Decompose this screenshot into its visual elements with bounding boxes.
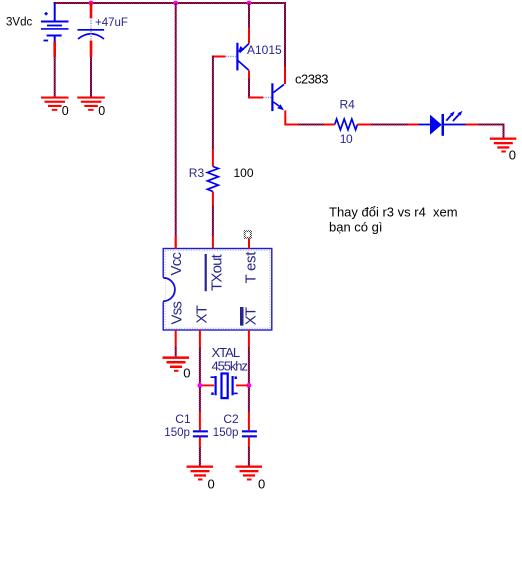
- svg-text:C1: C1: [175, 412, 191, 426]
- transistor Q1 A1015: [236, 43, 249, 71]
- label +47uF: [95, 17, 128, 29]
- wire rail to IC Vcc pin: [175, 3, 177, 249]
- wire R3 node down to resistor: [212, 56, 214, 167]
- label C2: [223, 412, 239, 426]
- wire capacitor to ground: [90, 41, 93, 97]
- ground (C2): [236, 466, 263, 481]
- wire XT pin down to crystal node: [199, 330, 201, 385]
- ground (Vss): [163, 356, 190, 371]
- wire Vss pin to ground: [175, 330, 177, 356]
- wire resistor R3 to IC TXout pin: [212, 192, 214, 249]
- label XTAL: [212, 345, 240, 360]
- svg-text:0: 0: [183, 366, 190, 381]
- label 100: [234, 166, 254, 180]
- capacitor C3 +47uF: [78, 2, 105, 41]
- svg-text:c2383: c2383: [295, 71, 328, 86]
- svg-text:0: 0: [258, 477, 265, 492]
- ground (battery): [41, 97, 69, 111]
- svg-text:R3: R3: [189, 166, 205, 180]
- svg-text:C2: C2: [223, 412, 239, 426]
- pin Vcc stub: [175, 236, 177, 249]
- wire rail to A1015 emitter: [248, 3, 250, 44]
- test terminal square: [244, 230, 252, 239]
- svg-text:R4: R4: [340, 98, 356, 112]
- label 0 C2 ground: [258, 477, 265, 492]
- label 0 right ground: [509, 147, 516, 162]
- wire battery to ground: [53, 42, 56, 97]
- pin label Vss: [169, 302, 186, 325]
- svg-text:Vcc: Vcc: [168, 252, 185, 276]
- svg-text:Thay đổi r3 vs r4 xem: Thay đổi r3 vs r4 xem: [329, 205, 458, 220]
- ground (C1): [187, 466, 214, 481]
- junction node at Vcc branch: [173, 1, 178, 6]
- label 0 capacitor ground: [98, 104, 105, 118]
- svg-text:455khz: 455khz: [212, 359, 248, 374]
- ground (capacitor): [77, 97, 105, 111]
- wire A1015 base to R3 node: [212, 56, 237, 58]
- svg-text:100: 100: [234, 166, 254, 180]
- svg-text:0: 0: [509, 147, 516, 162]
- wire R4 to LED: [357, 124, 418, 126]
- wire LED to right ground: [466, 124, 505, 138]
- wire top power rail: [54, 2, 286, 4]
- label 10: [340, 132, 353, 146]
- transistor Q2 c2383: [271, 83, 284, 111]
- junction node XT crystal: [197, 383, 202, 388]
- svg-text:0: 0: [62, 104, 69, 118]
- capacitor C2: [242, 430, 257, 437]
- svg-text:A1015: A1015: [247, 43, 282, 57]
- svg-text:0: 0: [98, 104, 105, 118]
- capacitor C1: [193, 430, 208, 437]
- svg-text:XT: XT: [243, 307, 260, 325]
- svg-text:0: 0: [208, 477, 215, 492]
- label 150p C2: [213, 427, 239, 439]
- svg-text:bạn có gì: bạn có gì: [329, 220, 383, 235]
- wire C1 to ground: [199, 437, 201, 465]
- label 455khz: [212, 359, 248, 374]
- resistor R4: [335, 119, 358, 130]
- junction node at A1015 emitter branch: [247, 1, 252, 6]
- ground (LED right): [490, 138, 517, 153]
- annotation text: [329, 205, 458, 235]
- pin label Test: [243, 251, 260, 284]
- label C1: [175, 412, 191, 426]
- wire c2383 emitter to R4: [284, 110, 335, 125]
- wire XTbar pin down to crystal node: [248, 330, 250, 385]
- label 0 C1 ground: [208, 477, 215, 492]
- resistor R3: [207, 167, 218, 192]
- pin label TXout with overline: [205, 253, 226, 291]
- pin label XTbar with overline: [240, 307, 260, 326]
- pin Test stub: [248, 238, 250, 248]
- svg-text:150p: 150p: [164, 427, 190, 439]
- svg-text:TXout: TXout: [209, 253, 226, 291]
- svg-text:XT: XT: [194, 305, 211, 323]
- crystal Y1: [202, 374, 248, 399]
- svg-text:+47uF: +47uF: [95, 17, 128, 29]
- label R4: [340, 98, 356, 112]
- pin label XT: [194, 305, 211, 323]
- junction node at capacitor top: [89, 1, 94, 6]
- wire C2 to ground: [248, 437, 250, 465]
- battery B1: [41, 2, 69, 42]
- label A1015: [247, 43, 282, 57]
- label R3: [189, 166, 205, 180]
- svg-text:3Vdc: 3Vdc: [6, 16, 32, 28]
- LED D1: [419, 111, 466, 136]
- label c2383: [295, 71, 328, 86]
- IC U1 body: [162, 249, 272, 331]
- svg-text:10: 10: [340, 132, 353, 146]
- svg-text:150p: 150p: [213, 427, 239, 439]
- label 3Vdc: [6, 16, 32, 28]
- svg-text:T est: T est: [243, 251, 260, 284]
- label 150p C1: [164, 427, 190, 439]
- label 0 battery ground: [62, 104, 69, 118]
- pin label Vcc: [168, 252, 185, 276]
- wire crystal node to C2: [248, 387, 250, 430]
- wire A1015 collector to c2383 base: [248, 71, 271, 99]
- label 0 Vss ground: [183, 366, 190, 381]
- wire rail to c2383 collector: [284, 3, 286, 84]
- wire crystal node to C1: [199, 387, 201, 430]
- svg-text:Vss: Vss: [169, 302, 186, 325]
- junction node XTbar crystal: [246, 383, 251, 388]
